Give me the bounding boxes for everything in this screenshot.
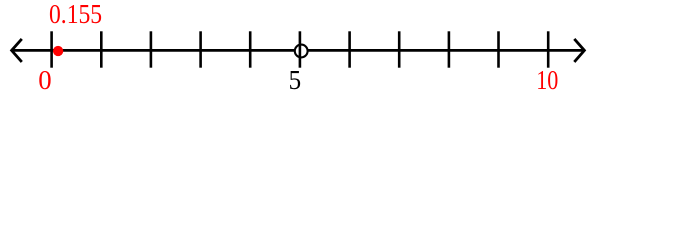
svg-text:0: 0 [38, 65, 51, 95]
open circle at 5 [295, 45, 308, 58]
tick 2 [150, 31, 153, 67]
tick 1 [100, 31, 103, 67]
number line axis [13, 49, 584, 52]
tick 5 [299, 31, 302, 67]
tick 0 [50, 31, 53, 67]
svg-text:10: 10 [536, 65, 558, 95]
svg-text:5: 5 [289, 65, 302, 95]
right arrowhead [574, 39, 584, 62]
tick 6 [348, 31, 351, 67]
tick 8 [448, 31, 451, 67]
tick 3 [199, 31, 202, 67]
svg-text:0.155: 0.155 [49, 0, 102, 29]
tick 4 [249, 31, 252, 67]
red point at 0.155 [53, 46, 63, 56]
left arrowhead [12, 39, 22, 62]
tick 10 [547, 31, 550, 67]
tick 7 [398, 31, 401, 67]
tick 9 [497, 31, 500, 67]
